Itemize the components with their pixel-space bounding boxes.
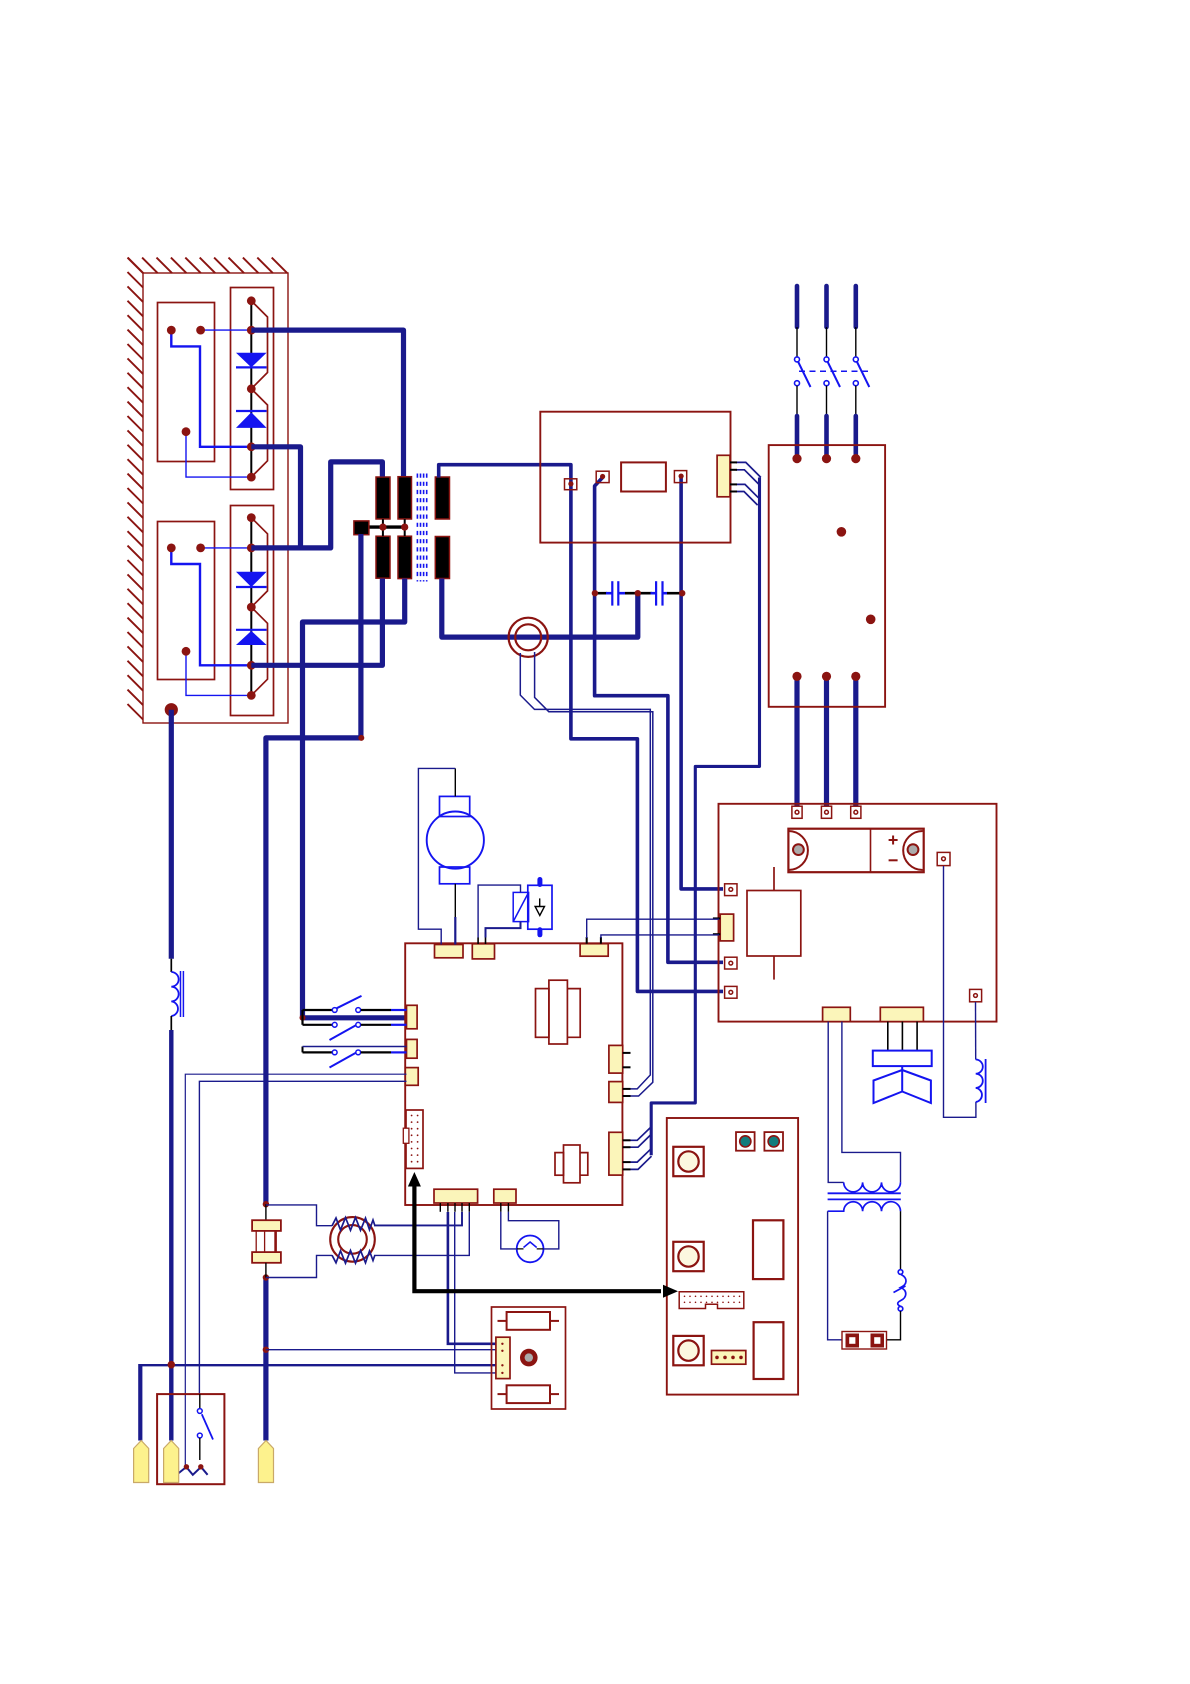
diode D3 [236,572,267,587]
feedthrough arrester F3 lead top [265,1204,267,1220]
interference suppression board A1 [540,412,730,543]
wire F2 top to T1 winding1 [251,462,382,548]
F1 electrode zigzag upper [251,301,267,389]
cable lug 3 [258,1441,273,1483]
A2 input terminal 2 [821,806,831,818]
breaker Q1 leads lower [797,386,856,414]
wire F3 tap to indicator board pin2 [266,1349,497,1351]
valve Y1 wire lower [486,922,521,938]
motor M1 body [427,812,484,869]
breaker Q1 arms [798,362,869,388]
transformer T1 core dashes [417,474,426,582]
A3 T3 pins [587,937,601,944]
A2 left connector [720,914,733,941]
wire L3 to plug switch blue [185,1074,406,1467]
A3 connector A pins [440,1203,469,1212]
toroid L3 winding top [332,1218,375,1231]
A2 terminal TL3 [725,986,737,998]
diode D1 [236,353,267,368]
A2 terminal T5 [970,989,982,1001]
switch S1 bracket [301,1010,303,1025]
A2 terminal TL2 [725,957,737,969]
wire T2 secondary right to thermal switch [900,1211,902,1269]
A3 R3 pins [623,1140,631,1169]
wire F1 bottom link [251,447,300,548]
inductor L2 core bar [985,1059,987,1103]
thermal switch ST [894,1270,907,1311]
transformer T1 center terminal [354,521,369,535]
ribbon cable arrow [408,1172,678,1298]
A2 left connector pins [713,918,720,934]
F1 electrode zigzag lower [251,389,267,477]
A4 connector [496,1337,510,1378]
contactor box K1 [769,445,885,707]
wires breaker to contactor [797,416,856,456]
A3 bottom connector A [434,1189,478,1203]
A3 R2 pins [623,1089,631,1096]
A4 LED [520,1349,538,1367]
A3 top connector T2 [472,944,494,959]
valve Y1 wire lower lead [485,938,487,945]
A3 top connector T1 [435,945,464,958]
A2 terminal T4 [937,852,950,865]
F2 electrode center line [250,518,252,696]
wire contactor to power phase b [824,678,829,807]
transformer T1 tap links [383,519,405,536]
surge arrester module F1 gap box [231,288,274,490]
ground wall enclosure [143,273,288,723]
wire F2 bottom to T1 winding4 [251,579,382,666]
bridge polarity minus [889,859,898,861]
F2 electrode zigzag lower [251,607,267,695]
wire toroid top to A3 connector A [374,1212,462,1225]
F2 electrode zigzag upper [251,518,267,608]
wire A3 T3 to A2 connector pin1 [587,919,719,938]
A3 ribbon header J1 [403,1110,423,1168]
A3 right connector R2 [609,1082,623,1103]
A3 left connector L1 [407,1005,418,1029]
A5 LED green 1 [736,1132,755,1151]
bridge rectifier left mount [788,831,808,870]
bridge rectifier divider [870,829,872,873]
ground wall hatching top [128,258,288,274]
F1 contact wire a [201,329,252,331]
A5 display 1 [753,1220,783,1279]
switch S2 wire plain [303,1046,407,1048]
F1 contact wire c [186,432,251,477]
transformer T1 winding bars [376,477,450,579]
inductor L1 lead top [170,959,172,972]
A4 resistor R1 [498,1312,560,1330]
indicator board A4 [492,1307,566,1409]
breaker Q1 linkage dashed [799,370,869,372]
A3 R1 stub pins [623,1053,631,1067]
A5 button 3 [673,1336,703,1365]
fan M2 blades [874,1066,931,1103]
surge arrester module F2 gap box [231,506,274,716]
wire T1 winding5 to switch bus [303,579,405,1018]
wire thermal switch to heater plug [887,1311,901,1340]
wire T1 winding6 through CT to capacitor tap [442,579,638,638]
wire A3 T3 to A2 connector pin2 [601,935,719,938]
X1 interlock switch [197,1394,213,1460]
ground electrode wire [169,710,174,959]
A5 display 2 [754,1322,784,1379]
feedthrough arrester F3 lead bottom [265,1263,267,1278]
fan M2 leads [888,1022,917,1051]
wire T4 to inductor L2 bottom [944,866,976,1117]
transformer T1 tap bar [366,525,406,528]
plug box X1 [157,1394,224,1484]
motor M1 top lead [454,768,456,796]
A3 right connector R3 [609,1132,623,1175]
heater plug X3 [842,1332,887,1350]
toroid L3 winding bottom [332,1251,375,1264]
F1 junction dots [167,296,256,481]
wire C1 pin2 to transformer T2 primary right [842,1022,901,1183]
A3 R3 harness leads [631,1128,652,1170]
capacitor C1 [595,581,625,605]
current transformer ring [509,618,548,657]
surge arrester module F2 contact box [158,522,215,680]
A3 right connector R1 [609,1045,623,1073]
control board A3 [405,943,622,1205]
wire F1 top to T1 winding2 [251,330,403,476]
surge arrester module F1 contact box [158,303,215,462]
wire C1 pin1 to transformer T2 primary left [828,1022,844,1183]
wire A3 connA to indicator board pin1 [448,1212,497,1344]
transformer T2 secondary winding [828,1202,901,1212]
power board A2 [719,804,997,1022]
wire L1 to lug [169,1030,173,1441]
harness pin leads [736,462,761,505]
solenoid valve Y1 coil [513,892,528,921]
solenoid valve Y1 arrow [535,898,544,915]
A3 relay K3 [536,980,581,1044]
breaker Q1 contacts [795,357,859,386]
wire F3 to toroid bottom [266,1255,332,1277]
A3 top connector T3 [580,944,608,957]
A2 input terminal 3 [851,806,861,818]
switch S1 pole B [303,1022,407,1040]
lamp H1 [517,1236,544,1263]
diode D2 [236,411,267,428]
ground wall hatching left [128,258,144,720]
F1 contact wire b [171,330,251,447]
wire ground bus to lug1 [140,1364,497,1441]
wire harness top board to panel connectors [651,478,759,1156]
solenoid valve Y1 ports [537,880,542,935]
A1 terminal 1 [565,479,577,490]
diode D4 [236,630,267,645]
motor M1 wire to connector [454,917,456,945]
A5 ribbon connector J2 [679,1292,744,1309]
wire switch bus to control board [303,1015,407,1020]
motor M1 loop wire [418,768,455,944]
wire toroid bottom to A3 connector A [374,1212,469,1255]
switch S2 bracket [302,1047,304,1053]
fan M2 body [873,1051,932,1067]
motor M1 upper terminal [440,796,470,816]
wire top board terminal3 to power terminal 1 [681,477,723,889]
inductor L1 [171,972,178,1016]
F1 electrode center line [250,301,252,477]
wire contactor to power phase c [853,678,858,807]
A5 LED green 2 [764,1132,783,1151]
cable lug 1 [134,1441,149,1483]
X1 contact chevrons [178,1467,207,1475]
A2 bottom connector C2 [880,1007,923,1021]
A1 terminal 3 [674,471,686,483]
bridge rectifier right mount [903,831,922,870]
wire A3 connA to indicator board pin4 [455,1212,497,1373]
inductor L2 [976,1060,983,1103]
cable lug 2 [164,1441,179,1483]
A2 input terminal 1 [792,806,802,818]
three phase supply stubs [797,286,856,327]
wire T1 winding3 to top board terminal and power terminal 3 [439,465,571,484]
lamp H1 wires [501,1212,517,1249]
motor M1 lower terminal [440,867,470,884]
breaker Q1 leads upper [797,327,856,357]
capacitor C2 [625,581,682,605]
X1 contact dots [184,1464,204,1469]
A3 relay K4 [555,1145,588,1183]
contactor K1 terminal dots [792,454,875,681]
harness junction dots [168,735,365,1369]
F2 contact wire a [201,547,252,549]
toroid filter L3 ring [330,1217,375,1262]
bridge rectifier V1 body [788,829,923,873]
switch S2 pole [303,1050,407,1068]
inductor L1 lead bottom [170,1016,172,1030]
wire T5 to inductor L2 top [975,1002,977,1060]
wire F3 to toroid top [266,1205,332,1226]
switch S1 pole A [303,996,407,1012]
transformer T2 primary winding [844,1182,901,1192]
wire T2 secondary left to heater plug [828,1211,842,1340]
A1 relay box [621,462,666,491]
F2 contact wire b [171,548,251,665]
wire L3 to plug switch navy [199,1081,406,1394]
capacitor junction dots [592,590,686,596]
front panel board A5 [667,1118,798,1395]
bridge polarity plus [889,836,898,845]
A4 resistor R2 [498,1385,560,1403]
CT secondary wire b [535,652,653,1096]
A1 connector pins [730,462,737,491]
A3 connector B pins [501,1203,509,1212]
A5 button 2 [673,1242,703,1271]
A3 left connector L2 [407,1039,418,1058]
wire feedthrough to lug [263,1278,268,1441]
A2 terminal TL1 [725,884,737,896]
wire top board terminal2 to power terminal 2 [595,478,723,963]
A3 left connector L3 [405,1068,418,1086]
A1 output connector [717,455,730,497]
transformer T1 tap dots [379,524,408,531]
CT secondary wire a [520,653,650,1089]
A5 button 1 [673,1147,703,1176]
F2 junction dots [167,513,256,700]
solenoid valve Y1 body [528,885,552,929]
transformer T2 core [828,1193,901,1199]
valve Y1 wire upper lead [477,938,479,945]
wire contactor to power phase a [794,678,799,807]
ground electrode terminal [165,703,178,716]
A1 terminal 2 [596,471,609,482]
A3 bottom connector B [494,1189,516,1203]
A2 bottom connector C1 [823,1007,851,1021]
valve Y1 wire upper [478,885,520,937]
F2 contact wire c [186,651,251,695]
A2 relay K2 [747,867,801,980]
A5 aux connector [712,1351,746,1365]
feedthrough arrester F3 [252,1220,281,1263]
inductor L1 core bars [181,971,184,1017]
wire T1 center tap ground rail [266,534,361,1204]
motor M1 bottom lead [454,884,456,917]
